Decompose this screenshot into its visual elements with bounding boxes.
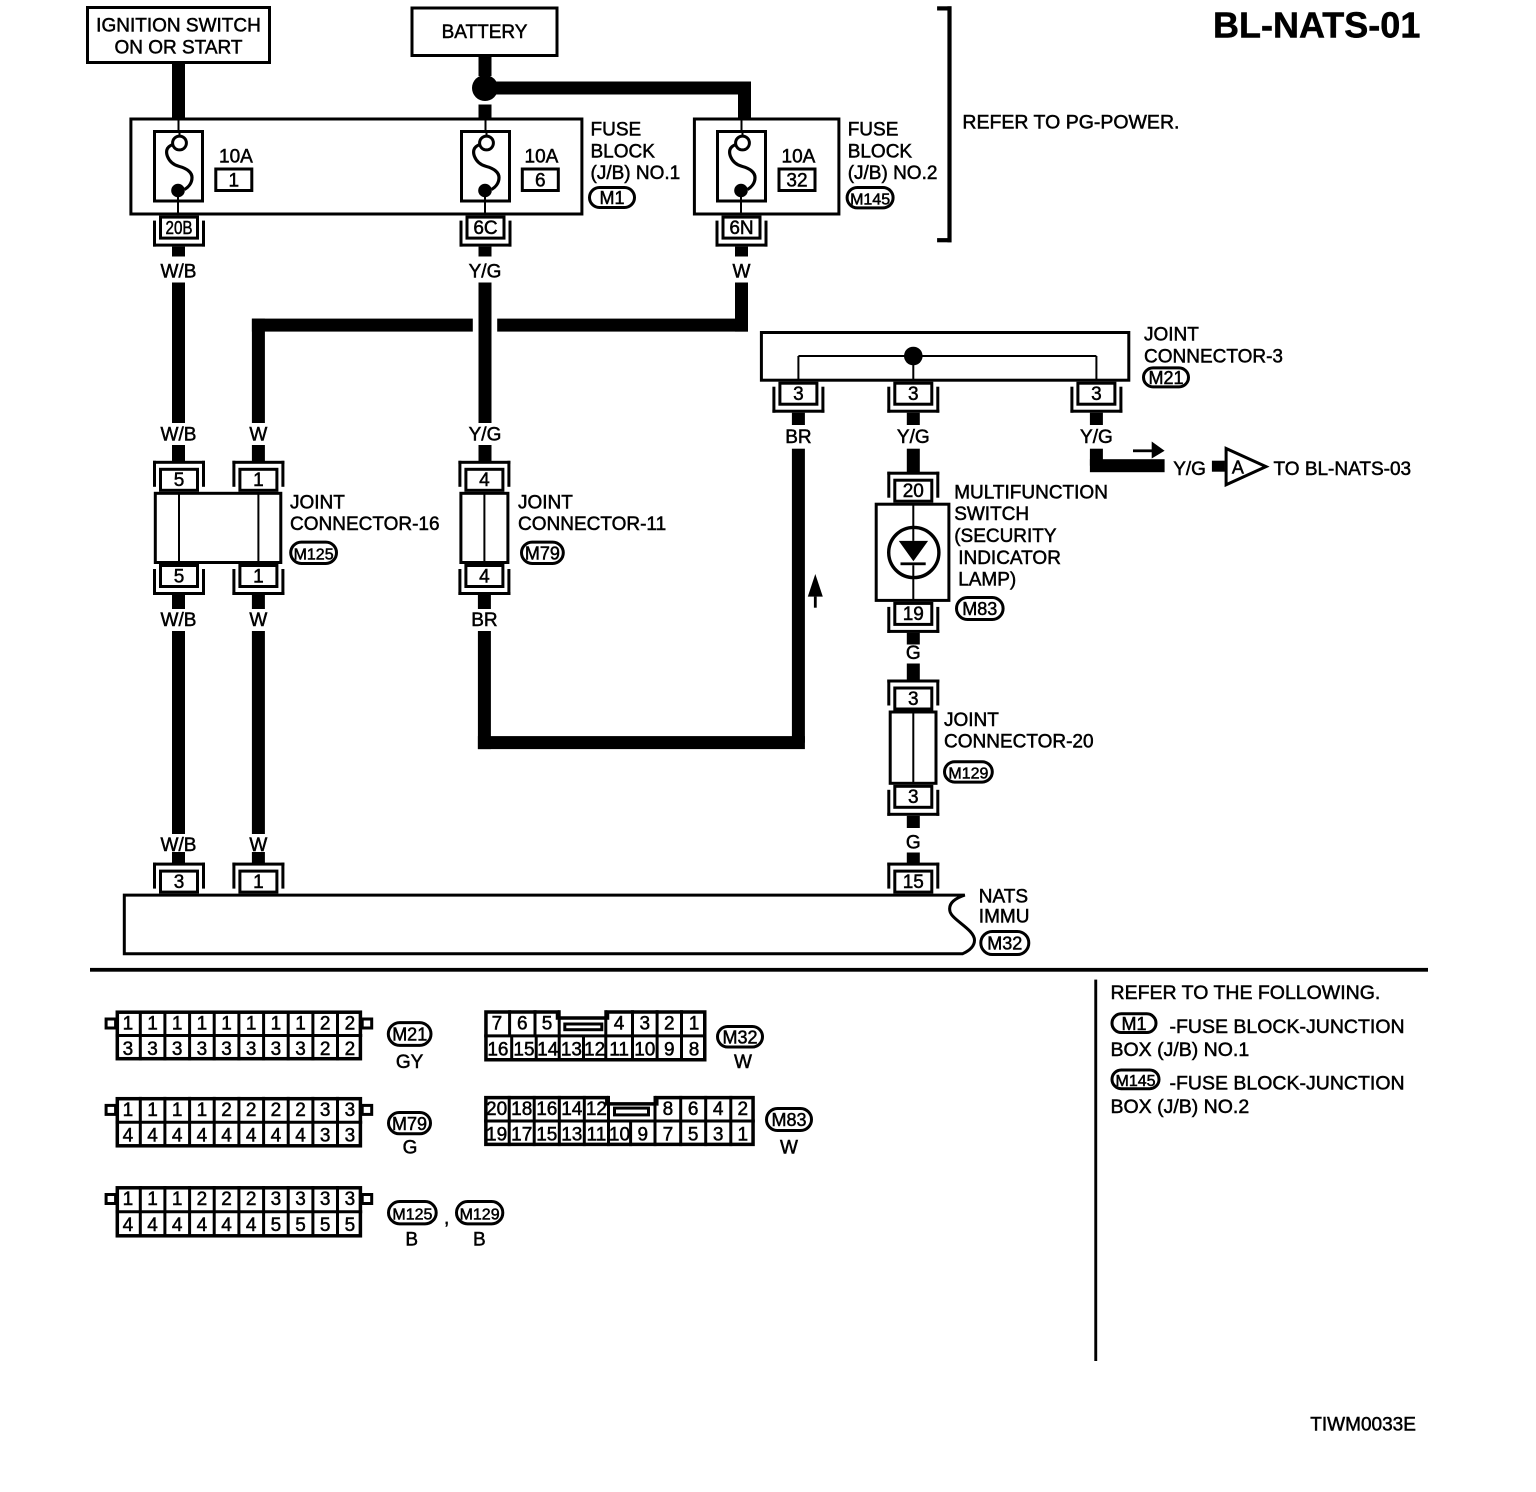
svg-text:13: 13	[561, 1039, 582, 1060]
svg-text:32: 32	[786, 170, 807, 191]
svg-text:W/B: W/B	[161, 610, 197, 631]
svg-text:ON OR START: ON OR START	[114, 38, 242, 59]
svg-text:JOINT: JOINT	[290, 492, 345, 513]
svg-text:G: G	[906, 833, 921, 854]
svg-text:M32: M32	[987, 934, 1022, 954]
svg-text:IMMU: IMMU	[979, 907, 1030, 928]
svg-text:14: 14	[561, 1099, 583, 1120]
svg-text:4: 4	[271, 1126, 282, 1147]
svg-text:1: 1	[147, 1189, 158, 1210]
svg-text:4: 4	[246, 1126, 257, 1147]
svg-text:3: 3	[640, 1013, 651, 1034]
svg-text:1: 1	[123, 1189, 134, 1210]
svg-text:10A: 10A	[782, 147, 816, 168]
svg-text:M83: M83	[771, 1110, 806, 1130]
svg-text:1: 1	[246, 1014, 257, 1035]
svg-text:5: 5	[174, 470, 185, 491]
svg-text:5: 5	[174, 566, 185, 587]
svg-text:20B: 20B	[166, 218, 193, 238]
svg-text:3: 3	[271, 1039, 282, 1060]
svg-text:JOINT: JOINT	[1144, 325, 1199, 346]
svg-text:19: 19	[486, 1125, 507, 1146]
svg-text:3: 3	[345, 1100, 356, 1121]
svg-text:JOINT: JOINT	[518, 492, 573, 513]
svg-text:BR: BR	[471, 610, 497, 631]
svg-text:BL-NATS-01: BL-NATS-01	[1213, 5, 1420, 46]
svg-text:G: G	[906, 643, 921, 664]
svg-text:CONNECTOR-11: CONNECTOR-11	[518, 514, 666, 535]
svg-text:2: 2	[345, 1014, 356, 1035]
svg-text:M125: M125	[294, 546, 334, 563]
svg-text:5: 5	[320, 1215, 331, 1236]
svg-text:W: W	[734, 1052, 752, 1073]
svg-text:2: 2	[295, 1100, 306, 1121]
svg-text:11: 11	[587, 1125, 607, 1146]
svg-text:BLOCK: BLOCK	[591, 141, 656, 162]
svg-text:16: 16	[536, 1099, 557, 1120]
svg-text:9: 9	[664, 1039, 675, 1060]
svg-text:1: 1	[147, 1014, 158, 1035]
svg-text:3: 3	[1091, 384, 1102, 405]
svg-text:,: ,	[444, 1208, 449, 1229]
svg-text:6: 6	[535, 170, 546, 191]
svg-text:6C: 6C	[473, 218, 497, 239]
svg-text:W: W	[733, 262, 751, 283]
svg-text:1: 1	[197, 1100, 208, 1121]
svg-text:3: 3	[908, 384, 919, 405]
svg-text:1: 1	[271, 1014, 282, 1035]
svg-text:3: 3	[246, 1039, 257, 1060]
svg-text:15: 15	[513, 1039, 534, 1060]
svg-text:A: A	[1232, 458, 1244, 478]
svg-text:3: 3	[147, 1039, 158, 1060]
svg-text:BR: BR	[785, 427, 811, 448]
svg-text:4: 4	[172, 1215, 183, 1236]
svg-text:NATS: NATS	[979, 887, 1028, 908]
svg-text:INDICATOR: INDICATOR	[958, 548, 1061, 569]
svg-text:3: 3	[197, 1039, 208, 1060]
svg-text:4: 4	[123, 1126, 134, 1147]
svg-text:6: 6	[517, 1013, 528, 1034]
svg-text:4: 4	[221, 1126, 232, 1147]
svg-text:1: 1	[197, 1014, 208, 1035]
svg-text:Y/G: Y/G	[469, 425, 502, 446]
svg-text:3: 3	[271, 1189, 282, 1210]
svg-text:4: 4	[713, 1099, 724, 1120]
svg-text:4: 4	[295, 1126, 306, 1147]
svg-text:M32: M32	[722, 1027, 757, 1047]
svg-text:W/B: W/B	[161, 425, 197, 446]
svg-text:FUSE: FUSE	[591, 120, 642, 141]
svg-text:14: 14	[537, 1039, 559, 1060]
svg-text:1: 1	[253, 470, 264, 491]
svg-text:REFER TO PG-POWER.: REFER TO PG-POWER.	[962, 112, 1179, 134]
svg-text:10: 10	[609, 1125, 630, 1146]
svg-text:W: W	[249, 610, 267, 631]
svg-text:1: 1	[738, 1125, 749, 1146]
svg-text:CONNECTOR-16: CONNECTOR-16	[290, 514, 440, 535]
svg-text:1: 1	[295, 1014, 306, 1035]
svg-text:3: 3	[345, 1189, 356, 1210]
svg-text:10: 10	[634, 1039, 655, 1060]
svg-text:2: 2	[197, 1189, 208, 1210]
svg-text:5: 5	[688, 1125, 699, 1146]
svg-text:8: 8	[663, 1099, 674, 1120]
svg-text:Y/G: Y/G	[897, 427, 930, 448]
svg-text:W/B: W/B	[161, 262, 197, 283]
svg-text:20: 20	[903, 481, 924, 502]
svg-text:-FUSE BLOCK-JUNCTION: -FUSE BLOCK-JUNCTION	[1170, 1073, 1405, 1095]
svg-text:G: G	[403, 1138, 418, 1159]
svg-text:CONNECTOR-3: CONNECTOR-3	[1144, 347, 1283, 368]
svg-text:3: 3	[123, 1039, 134, 1060]
svg-text:16: 16	[487, 1039, 508, 1060]
svg-text:1: 1	[221, 1014, 232, 1035]
svg-text:3: 3	[320, 1189, 331, 1210]
svg-text:7: 7	[492, 1013, 503, 1034]
svg-text:10A: 10A	[219, 147, 253, 168]
svg-text:4: 4	[221, 1215, 232, 1236]
svg-text:4: 4	[147, 1126, 158, 1147]
svg-text:M145: M145	[850, 191, 890, 208]
svg-text:LAMP): LAMP)	[958, 570, 1016, 591]
svg-text:1: 1	[123, 1100, 134, 1121]
svg-text:M129: M129	[460, 1206, 500, 1223]
svg-text:BLOCK: BLOCK	[848, 141, 913, 162]
svg-text:2: 2	[320, 1039, 331, 1060]
svg-text:TO BL-NATS-03: TO BL-NATS-03	[1274, 459, 1412, 480]
svg-text:1: 1	[172, 1100, 183, 1121]
svg-text:MULTIFUNCTION: MULTIFUNCTION	[954, 482, 1108, 503]
svg-text:15: 15	[903, 872, 924, 893]
svg-text:1: 1	[123, 1014, 134, 1035]
svg-text:5: 5	[345, 1215, 356, 1236]
svg-text:5: 5	[271, 1215, 282, 1236]
svg-text:11: 11	[609, 1039, 629, 1060]
svg-text:REFER TO THE FOLLOWING.: REFER TO THE FOLLOWING.	[1111, 982, 1381, 1004]
svg-text:CONNECTOR-20: CONNECTOR-20	[944, 732, 1094, 753]
svg-text:6N: 6N	[729, 218, 753, 239]
svg-text:8: 8	[689, 1039, 700, 1060]
svg-text:4: 4	[246, 1215, 257, 1236]
svg-text:4: 4	[172, 1126, 183, 1147]
svg-text:2: 2	[221, 1189, 232, 1210]
svg-text:4: 4	[479, 566, 490, 587]
svg-text:3: 3	[793, 384, 804, 405]
svg-text:2: 2	[271, 1100, 282, 1121]
svg-text:3: 3	[295, 1189, 306, 1210]
svg-text:2: 2	[320, 1014, 331, 1035]
svg-text:Y/G: Y/G	[1080, 427, 1113, 448]
svg-text:6: 6	[688, 1099, 699, 1120]
svg-text:3: 3	[221, 1039, 232, 1060]
svg-text:10A: 10A	[525, 147, 559, 168]
svg-text:2: 2	[738, 1099, 749, 1120]
svg-text:M21: M21	[1148, 368, 1183, 388]
svg-text:20: 20	[486, 1099, 507, 1120]
svg-text:3: 3	[713, 1125, 724, 1146]
svg-text:4: 4	[614, 1013, 625, 1034]
svg-text:5: 5	[295, 1215, 306, 1236]
svg-text:SWITCH: SWITCH	[954, 504, 1029, 525]
svg-text:BOX (J/B) NO.2: BOX (J/B) NO.2	[1111, 1096, 1250, 1118]
svg-text:M129: M129	[948, 766, 988, 783]
svg-text:4: 4	[123, 1215, 134, 1236]
svg-text:1: 1	[253, 566, 264, 587]
svg-text:17: 17	[511, 1125, 532, 1146]
svg-text:18: 18	[511, 1099, 532, 1120]
svg-text:12: 12	[586, 1099, 607, 1120]
svg-text:13: 13	[561, 1125, 582, 1146]
svg-text:W: W	[249, 425, 267, 446]
svg-text:IGNITION SWITCH: IGNITION SWITCH	[96, 16, 261, 37]
svg-text:3: 3	[295, 1039, 306, 1060]
svg-text:BOX (J/B) NO.1: BOX (J/B) NO.1	[1111, 1039, 1250, 1061]
svg-text:-FUSE BLOCK-JUNCTION: -FUSE BLOCK-JUNCTION	[1170, 1016, 1405, 1038]
svg-text:M1: M1	[1121, 1014, 1146, 1034]
svg-text:1: 1	[689, 1013, 700, 1034]
svg-text:Y/G: Y/G	[469, 262, 502, 283]
svg-text:GY: GY	[396, 1052, 424, 1073]
svg-text:1: 1	[253, 872, 264, 893]
svg-text:TIWM0033E: TIWM0033E	[1310, 1415, 1416, 1436]
svg-text:3: 3	[908, 689, 919, 710]
svg-text:1: 1	[172, 1189, 183, 1210]
svg-text:19: 19	[903, 604, 924, 625]
svg-text:M125: M125	[392, 1206, 432, 1223]
svg-text:B: B	[473, 1230, 486, 1251]
svg-text:FUSE: FUSE	[848, 120, 899, 141]
svg-text:B: B	[405, 1230, 418, 1251]
svg-text:4: 4	[147, 1215, 158, 1236]
svg-text:BATTERY: BATTERY	[442, 22, 528, 43]
svg-text:3: 3	[320, 1100, 331, 1121]
svg-text:(J/B) NO.2: (J/B) NO.2	[848, 163, 938, 184]
svg-text:W: W	[780, 1138, 798, 1159]
svg-text:4: 4	[479, 470, 490, 491]
svg-text:(SECURITY: (SECURITY	[954, 526, 1057, 547]
svg-text:M1: M1	[599, 188, 624, 208]
svg-text:1: 1	[229, 170, 240, 191]
svg-text:1: 1	[147, 1100, 158, 1121]
svg-text:4: 4	[197, 1126, 208, 1147]
svg-text:15: 15	[536, 1125, 557, 1146]
svg-text:4: 4	[197, 1215, 208, 1236]
svg-text:M21: M21	[392, 1025, 427, 1045]
svg-text:M145: M145	[1115, 1073, 1155, 1090]
svg-text:(J/B) NO.1: (J/B) NO.1	[591, 163, 681, 184]
svg-text:9: 9	[638, 1125, 649, 1146]
svg-text:M79: M79	[392, 1114, 427, 1134]
svg-text:2: 2	[664, 1013, 675, 1034]
svg-text:3: 3	[345, 1126, 356, 1147]
svg-text:M83: M83	[962, 599, 997, 619]
svg-text:3: 3	[908, 787, 919, 808]
svg-text:3: 3	[320, 1126, 331, 1147]
svg-text:Y/G: Y/G	[1173, 459, 1206, 480]
svg-text:2: 2	[246, 1100, 257, 1121]
svg-text:5: 5	[542, 1013, 553, 1034]
svg-text:3: 3	[174, 872, 185, 893]
svg-text:12: 12	[584, 1039, 605, 1060]
svg-text:2: 2	[246, 1189, 257, 1210]
svg-text:3: 3	[172, 1039, 183, 1060]
svg-text:7: 7	[663, 1125, 674, 1146]
svg-text:2: 2	[221, 1100, 232, 1121]
svg-text:M79: M79	[525, 543, 560, 563]
svg-text:2: 2	[345, 1039, 356, 1060]
svg-text:JOINT: JOINT	[944, 710, 999, 731]
svg-text:1: 1	[172, 1014, 183, 1035]
